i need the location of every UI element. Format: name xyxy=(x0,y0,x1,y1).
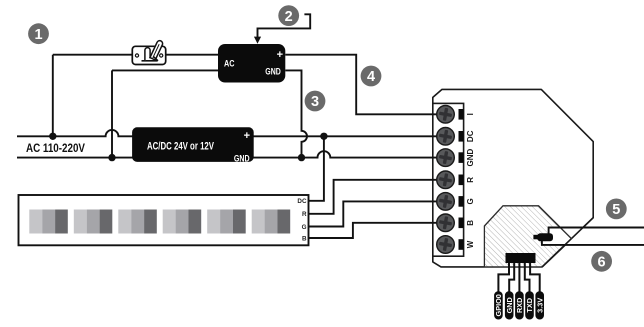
svg-text:AC/DC 24V or 12V: AC/DC 24V or 12V xyxy=(147,140,214,152)
svg-text:GPIO0: GPIO0 xyxy=(494,294,503,316)
svg-text:5: 5 xyxy=(612,202,620,218)
svg-text:AC: AC xyxy=(224,57,235,68)
svg-text:DC: DC xyxy=(466,130,475,142)
svg-text:G: G xyxy=(302,224,307,231)
svg-text:G: G xyxy=(466,198,475,204)
svg-text:2: 2 xyxy=(285,9,293,25)
svg-text:R: R xyxy=(466,177,475,183)
svg-text:1: 1 xyxy=(34,27,42,43)
svg-text:+: + xyxy=(244,130,250,142)
svg-text:RXD: RXD xyxy=(515,298,524,313)
svg-text:+: + xyxy=(277,49,283,61)
svg-text:TXD: TXD xyxy=(525,298,534,313)
svg-text:GND: GND xyxy=(265,67,281,77)
svg-text:AC 110-220V: AC 110-220V xyxy=(26,141,86,155)
svg-text:DC: DC xyxy=(297,198,307,205)
svg-text:GND: GND xyxy=(234,153,250,163)
svg-text:3.3V: 3.3V xyxy=(535,298,544,313)
svg-text:W: W xyxy=(466,240,475,248)
svg-text:I: I xyxy=(466,113,475,115)
svg-text:3: 3 xyxy=(311,94,319,110)
svg-text:GND: GND xyxy=(466,148,475,166)
svg-text:6: 6 xyxy=(598,255,606,271)
svg-text:R: R xyxy=(302,211,307,218)
svg-text:4: 4 xyxy=(367,69,375,85)
svg-text:GND: GND xyxy=(505,297,514,313)
svg-text:B: B xyxy=(302,235,307,242)
svg-text:B: B xyxy=(466,220,475,226)
